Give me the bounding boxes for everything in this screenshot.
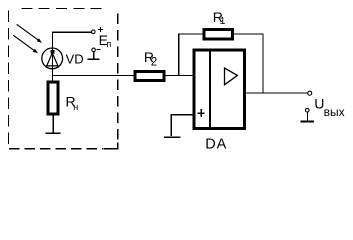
- dashed enclosure: left border: [8, 11, 10, 145]
- dashed enclosure: right border: [117, 14, 119, 143]
- dashed enclosure: bottom border: [9, 148, 103, 150]
- dashed enclosure: bottom-right corner piece: [104, 143, 118, 149]
- terminal minus of Ep: [92, 48, 96, 52]
- resistor Rn: [48, 82, 58, 114]
- plus sign at non-inverting input: [198, 112, 205, 114]
- common terminal at output: [305, 108, 309, 112]
- svg-text:1: 1: [220, 15, 226, 27]
- common bar: [301, 121, 315, 123]
- svg-text:вых: вых: [324, 105, 345, 119]
- resistor R2: [135, 71, 164, 80]
- common stem: [306, 112, 308, 121]
- wire: R2 to op-amp inverting input: [166, 75, 193, 77]
- light arrow 1: [17, 24, 42, 43]
- svg-text:п: п: [106, 39, 111, 49]
- svg-text:VD: VD: [66, 51, 84, 66]
- light arrow 2: [13, 35, 38, 53]
- common bar under Rn: [46, 132, 61, 134]
- photodiode VD: circle: [42, 48, 63, 69]
- resistor R1: [204, 29, 233, 39]
- minus sign: [97, 49, 101, 51]
- terminal Uout (open circle): [308, 91, 312, 95]
- wire: feedback vertical at node: [178, 34, 180, 76]
- op-amp DA body: [194, 50, 244, 128]
- dashed enclosure (photodetector block): top border: [21, 8, 107, 10]
- wire: feedback to R1 left: [178, 33, 203, 35]
- wire: Rn bottom to common: [52, 116, 54, 133]
- svg-text:2: 2: [151, 56, 157, 68]
- svg-text:н: н: [73, 102, 78, 112]
- op-amp divider line: [209, 49, 211, 130]
- wire: non-inverting input to common: [171, 115, 192, 136]
- photodiode VD: triangle: [47, 53, 58, 66]
- minus terminal stem and bar: [93, 52, 95, 59]
- wire: node to R2: [53, 75, 135, 77]
- op-amp triangle: [225, 68, 238, 85]
- plus sign at Ep: [98, 28, 103, 30]
- photodiode VD: cathode bar: [50, 50, 54, 53]
- wire: through photodiode, top up and right to +Ep terminal: [53, 32, 92, 81]
- terminal +Ep (open circle): [92, 30, 96, 34]
- svg-text:DA: DA: [205, 137, 227, 153]
- common bar at op-amp + input: [164, 136, 181, 138]
- wire: R1 right to feedback down to output: [234, 34, 263, 93]
- wire: op-amp output to Uout terminal: [246, 92, 308, 94]
